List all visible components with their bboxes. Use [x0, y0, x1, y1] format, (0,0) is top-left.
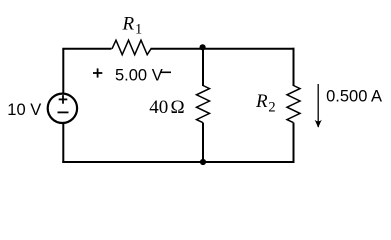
- resistor 40 ohm: [197, 86, 210, 123]
- wire: bottom-left corner up to source bottom: [62, 123, 64, 163]
- polarity minus sign for R1 voltage: [160, 71, 171, 73]
- node A (top junction dot): [200, 44, 206, 50]
- wire: top-left corner to R1: [62, 48, 111, 50]
- svg-text:1: 1: [135, 21, 142, 37]
- svg-text:R: R: [255, 91, 268, 112]
- svg-text:40: 40: [149, 97, 168, 118]
- svg-text:R: R: [122, 14, 135, 35]
- wire: node A to top-right corner: [203, 48, 295, 50]
- label R1: [122, 14, 143, 38]
- polarity plus sign for R1 voltage: [93, 68, 102, 77]
- resistor R2: [287, 86, 300, 123]
- svg-text:0.500 A: 0.500 A: [326, 87, 382, 105]
- voltage source V1 (10 V): [48, 94, 77, 123]
- resistor R1: [112, 40, 151, 55]
- wire: 40 ohm resistor to node B: [202, 123, 204, 162]
- voltage source plus sign: [59, 95, 68, 104]
- svg-text:10 V: 10 V: [7, 101, 41, 119]
- svg-text:5.00 V: 5.00 V: [115, 67, 163, 85]
- wire: top-right corner down to R2: [293, 48, 295, 86]
- wire: source top to top-left corner: [62, 49, 64, 94]
- label R2: [255, 91, 276, 116]
- current arrow (0.500 A): [315, 84, 322, 128]
- node B (bottom junction dot): [200, 159, 206, 165]
- wire: R2 to bottom-right corner: [293, 123, 295, 163]
- wire: node A down to 40 ohm resistor: [202, 49, 204, 86]
- voltage source minus sign: [58, 111, 69, 113]
- wire: bottom-right corner to node B: [203, 161, 295, 163]
- wire: R1 to node A: [151, 48, 204, 50]
- svg-text:Ω: Ω: [171, 97, 185, 118]
- svg-text:2: 2: [268, 100, 275, 116]
- wire: node B to bottom-left corner: [62, 161, 203, 163]
